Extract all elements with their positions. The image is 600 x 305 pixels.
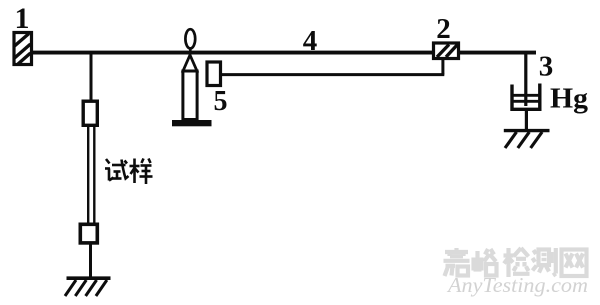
beam wire (lever arm 4) — [33, 51, 537, 55]
lower grip — [80, 224, 97, 243]
ground under cup — [504, 131, 550, 148]
specimen rod (double line) — [87, 126, 89, 224]
wire riser to transducer 2 — [441, 59, 444, 75]
watermark 嘉峪检测网 drawn as gray strokes — [444, 248, 587, 277]
mercury cup — [512, 84, 540, 110]
ground under specimen — [65, 278, 111, 296]
fulcrum knife edge (triangle) — [183, 55, 197, 71]
transducer 2 (hatched box) — [434, 43, 459, 59]
峪 — [474, 249, 497, 276]
core rod block 5 — [207, 62, 221, 86]
svg-text:1: 1 — [15, 2, 30, 35]
push rod wire to transducer — [222, 73, 444, 76]
svg-text:5: 5 — [214, 86, 228, 117]
fixed support block 1 (hatched) — [14, 33, 32, 65]
svg-text:2: 2 — [436, 13, 451, 45]
网 — [562, 250, 587, 277]
dip rod wire into mercury — [524, 54, 527, 106]
svg-text:4: 4 — [303, 25, 318, 57]
检 — [504, 248, 530, 277]
svg-text:3: 3 — [539, 51, 554, 83]
svg-text:Hg: Hg — [550, 84, 588, 115]
样 — [130, 159, 153, 185]
hanger wire — [90, 53, 93, 101]
svg-text:AnyTesting.com: AnyTesting.com — [446, 273, 588, 297]
测 — [533, 248, 556, 276]
label 试样 (specimen) drawn as strokes — [105, 159, 153, 185]
试 — [105, 159, 129, 181]
pivot label 0 (ellipse) — [185, 29, 195, 48]
fulcrum post — [183, 71, 197, 120]
嘉 — [444, 248, 470, 276]
mercury level lines — [513, 94, 542, 97]
wire to ground — [89, 245, 92, 279]
upper grip — [83, 101, 97, 125]
cup stem wire — [525, 111, 528, 130]
fulcrum base — [172, 120, 212, 126]
